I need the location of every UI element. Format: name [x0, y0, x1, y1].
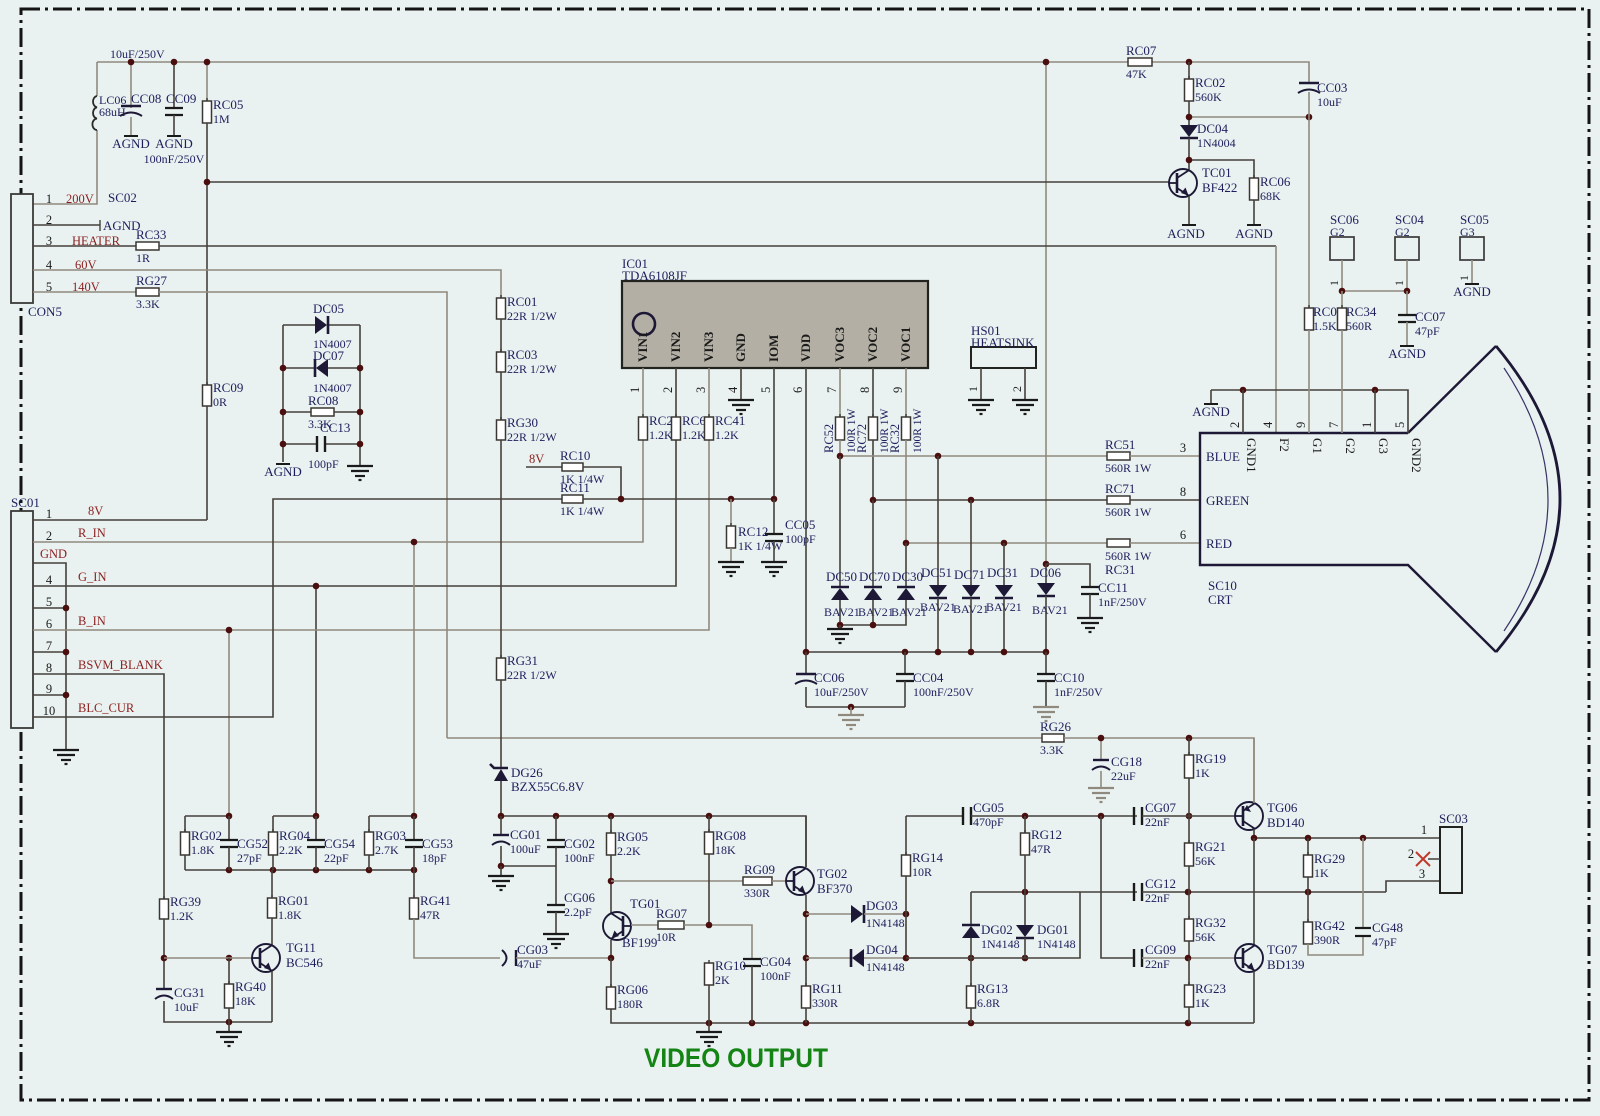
wire CG48 top — [1362, 838, 1364, 928]
svg-text:1.8K: 1.8K — [278, 908, 302, 922]
svg-text:CG31: CG31 — [174, 985, 205, 1000]
svg-text:DC31: DC31 — [987, 565, 1018, 580]
wire RG41 to CG03 — [414, 919, 500, 958]
svg-text:CG04: CG04 — [760, 954, 792, 969]
wire CC07 top — [1406, 291, 1408, 315]
svg-text:CG18: CG18 — [1111, 754, 1142, 769]
wire pair1 top rail — [185, 815, 229, 817]
svg-text:BD140: BD140 — [1267, 815, 1305, 830]
junction RC02 DC04 node — [1186, 114, 1313, 121]
capacitor CG07 — [1134, 800, 1177, 829]
svg-text:VIDEO OUTPUT: VIDEO OUTPUT — [644, 1043, 828, 1073]
net 60V — [75, 258, 97, 272]
diode DG01 — [1016, 922, 1076, 951]
resistor RG12 — [1021, 827, 1063, 856]
wire F2 drop — [1275, 246, 1277, 433]
svg-text:6.8R: 6.8R — [977, 996, 1000, 1010]
wire DG04 line — [806, 957, 851, 959]
wire CG52 bottom — [228, 847, 230, 870]
svg-text:1K 1/4W: 1K 1/4W — [560, 504, 605, 518]
wire DC31 top — [1003, 543, 1005, 585]
pin number 4 IC01 — [726, 386, 740, 393]
capacitor CG54 — [307, 836, 356, 865]
wire tie gnd stub — [850, 707, 852, 715]
wire CG53 bottom — [413, 847, 415, 870]
svg-text:CG01: CG01 — [510, 827, 541, 842]
svg-text:22uF: 22uF — [1111, 769, 1136, 783]
pin number 1 CRT — [1360, 422, 1374, 428]
wire RC11 node line — [583, 498, 774, 500]
wire DC05 cathode — [328, 324, 360, 326]
wire RG02 bottom — [184, 855, 186, 870]
svg-text:18K: 18K — [235, 994, 256, 1008]
svg-text:1: 1 — [1327, 280, 1341, 286]
resistor RC01 — [497, 294, 558, 323]
net BLC_CUR — [78, 701, 135, 715]
junction CC06 gnd — [848, 704, 855, 711]
svg-text:RC11: RC11 — [560, 480, 590, 495]
resistor RG30 — [497, 415, 558, 444]
svg-text:BC546: BC546 — [286, 955, 323, 970]
wire 140V rail to RG26 — [447, 737, 1042, 739]
svg-text:22nF: 22nF — [1145, 891, 1170, 905]
svg-text:RC01: RC01 — [507, 294, 537, 309]
pin 5 SC01 — [46, 595, 52, 609]
wire CG02 top — [555, 816, 557, 840]
svg-text:CC08: CC08 — [131, 91, 161, 106]
svg-text:5: 5 — [759, 387, 773, 393]
net BSVM_BLANK — [78, 658, 163, 672]
wire VOC2 below RC72 — [872, 440, 874, 500]
svg-text:CC06: CC06 — [814, 670, 845, 685]
wire RG05 to TG01 collector — [610, 855, 612, 913]
wire VOC1 below RC32 — [905, 440, 907, 543]
svg-text:3: 3 — [694, 387, 708, 393]
wire DG03 to RG14 — [864, 913, 906, 915]
pin 9 SC01 — [46, 682, 52, 696]
pin number 4 CRT — [1261, 421, 1275, 428]
wire RC02 to DC04 — [1188, 101, 1190, 125]
wire RED line — [906, 542, 1107, 544]
wire RG23 top — [1188, 958, 1190, 985]
ground AGND snubber — [264, 464, 302, 479]
pin 8 CRT — [1180, 485, 1186, 499]
svg-text:4: 4 — [46, 573, 53, 587]
diode DC51 — [920, 565, 956, 614]
svg-text:RC32: RC32 — [888, 424, 902, 453]
resistor RC11 — [560, 480, 605, 518]
wire CG01 CG02 tie — [501, 865, 556, 867]
wire DG02 top tie — [971, 891, 1080, 893]
svg-text:47R: 47R — [420, 908, 440, 922]
wire G1 drop to RC04 — [1308, 117, 1310, 308]
svg-text:CG06: CG06 — [564, 890, 596, 905]
transistor TG07 — [1235, 942, 1305, 972]
junction dots DG bottom line — [903, 955, 1029, 962]
svg-text:RG08: RG08 — [715, 828, 746, 843]
pin 1 HS01 — [966, 386, 980, 392]
svg-text:RC05: RC05 — [213, 97, 243, 112]
wire IC pin VIN3 — [708, 368, 710, 417]
pin number 8 IC01 — [858, 387, 872, 393]
svg-text:DC70: DC70 — [859, 569, 890, 584]
pin label VOC2 IC01 — [865, 327, 880, 362]
wire RC01 RC03 — [500, 319, 502, 352]
svg-text:330R: 330R — [744, 886, 770, 900]
wire RG08 top — [708, 816, 710, 832]
wire 200V top rail — [97, 61, 1128, 63]
junction dots RGB inputs — [226, 539, 418, 634]
svg-text:1: 1 — [1457, 275, 1471, 281]
resistor RC31 — [1105, 539, 1152, 577]
svg-text:CG07: CG07 — [1145, 800, 1177, 815]
svg-text:1.8K: 1.8K — [191, 843, 215, 857]
svg-text:CG02: CG02 — [564, 836, 595, 851]
junction dots CG05 line — [1022, 813, 1193, 820]
svg-text:AGND: AGND — [1192, 404, 1230, 419]
svg-text:3: 3 — [46, 234, 52, 248]
svg-text:2: 2 — [46, 529, 52, 543]
svg-text:DC50: DC50 — [826, 569, 857, 584]
svg-text:BLC_CUR: BLC_CUR — [78, 701, 135, 715]
wire DC30 top — [905, 543, 907, 587]
wire CG07 to TG06 base — [1142, 815, 1236, 817]
transistor TG11 — [252, 940, 323, 972]
svg-text:4: 4 — [1261, 421, 1275, 428]
svg-text:560K: 560K — [1195, 90, 1222, 104]
wire RG40 bottom — [228, 1008, 230, 1022]
svg-text:1N4148: 1N4148 — [866, 916, 905, 930]
wire G2 tie — [1342, 290, 1407, 292]
capacitor CG18 — [1092, 754, 1142, 783]
svg-text:9: 9 — [891, 387, 905, 393]
wire B_IN drop to CG52 — [228, 630, 230, 816]
resistor RC72 — [855, 408, 891, 453]
wire R_IN to RC21 — [33, 440, 643, 542]
wire gnd stub TG11 — [228, 1022, 230, 1032]
wire output to SC03 pin1 — [1254, 837, 1440, 839]
svg-text:22R 1/2W: 22R 1/2W — [507, 362, 557, 376]
svg-text:SC03: SC03 — [1439, 811, 1468, 826]
junction dots bottom rail — [706, 1020, 1192, 1027]
title VIDEO OUTPUT — [644, 1043, 828, 1073]
svg-text:8V: 8V — [88, 504, 103, 518]
svg-text:AGND: AGND — [155, 136, 193, 151]
wire CC10 bottom — [1045, 681, 1047, 707]
ref SC02 — [108, 190, 137, 205]
pin 8 SC01 — [46, 661, 52, 675]
svg-text:RC09: RC09 — [213, 380, 243, 395]
no-connect pin 2 SC03 — [1408, 847, 1440, 866]
capacitor CC10 — [1037, 670, 1103, 699]
wire amp rail to TG02 collector — [501, 816, 806, 867]
svg-text:7: 7 — [825, 387, 839, 393]
pin 2 SC01 — [46, 529, 52, 543]
wire IC pin VOC3 — [839, 368, 841, 417]
wire RC03 RG30 — [500, 372, 502, 420]
junction dots pair tops — [226, 813, 418, 820]
svg-text:CC04: CC04 — [913, 670, 944, 685]
pin 1 SC03 — [1421, 823, 1427, 837]
svg-text:1K: 1K — [1195, 766, 1210, 780]
junction dots RC11 line — [618, 496, 778, 503]
wire TG02 emitter node — [805, 914, 807, 986]
svg-text:1.5K: 1.5K — [1313, 319, 1337, 333]
svg-text:3: 3 — [1180, 441, 1186, 455]
resistor RC12 — [727, 523, 784, 553]
svg-text:1: 1 — [1360, 422, 1374, 428]
wire DG04 to RG14 — [864, 957, 906, 959]
diode DG03 — [851, 898, 905, 930]
svg-text:SC02: SC02 — [108, 190, 137, 205]
wire CG05 to CG07 — [971, 815, 1137, 817]
net 200V — [66, 192, 94, 206]
pin 5 CON5 — [46, 280, 52, 294]
svg-text:47pF: 47pF — [1415, 324, 1440, 338]
pin label VIN3 IC01 — [701, 331, 716, 362]
wire CG52 top — [228, 816, 230, 840]
wire bottom gnd rail — [611, 1009, 1254, 1023]
svg-text:TG11: TG11 — [286, 940, 316, 955]
diode DC70 — [858, 569, 894, 619]
wire RG42 top — [1307, 892, 1309, 922]
svg-text:100pF: 100pF — [785, 532, 816, 546]
pin label VIN1 IC01 — [635, 332, 650, 362]
wire RG07 to CG04 — [684, 925, 752, 959]
svg-text:CG12: CG12 — [1145, 876, 1176, 891]
ground — [696, 1032, 722, 1046]
wire G2 to CRT — [1341, 330, 1343, 433]
wire TG07 emitter — [1253, 971, 1255, 1023]
svg-text:BF422: BF422 — [1202, 180, 1237, 195]
resistor RG09 — [743, 862, 775, 900]
svg-text:18K: 18K — [715, 843, 736, 857]
wire RED to CRT — [1130, 542, 1200, 544]
wire DG26 to rail — [500, 781, 502, 816]
svg-text:BSVM_BLANK: BSVM_BLANK — [78, 658, 163, 672]
wire RG31 to DG26 — [500, 680, 502, 768]
wire G1 to CRT — [1308, 330, 1310, 433]
capacitor CG53 — [405, 836, 453, 865]
svg-text:CC05: CC05 — [785, 517, 815, 532]
svg-text:G2: G2 — [1343, 438, 1358, 454]
wire RG19 bottom — [1188, 778, 1190, 816]
svg-text:CG52: CG52 — [237, 836, 268, 851]
ground — [968, 400, 994, 414]
svg-text:22R 1/2W: 22R 1/2W — [507, 668, 557, 682]
svg-text:TC01: TC01 — [1202, 165, 1232, 180]
svg-text:G1: G1 — [1310, 438, 1325, 454]
svg-text:RC34: RC34 — [1346, 304, 1377, 319]
wire IC pin VIN1 — [642, 368, 644, 417]
svg-text:47K: 47K — [1126, 67, 1147, 81]
capacitor CC11 — [1081, 580, 1147, 609]
heatsink HS01 — [971, 323, 1036, 368]
wire CG03 to TG01 emitter — [516, 957, 611, 959]
ground — [347, 466, 373, 480]
wire DC04 to TC01 collector — [1188, 138, 1190, 171]
junction RG40 bottom — [226, 1019, 233, 1026]
wire G_IN to RC61 — [33, 440, 676, 586]
svg-text:VIN1: VIN1 — [635, 332, 650, 362]
svg-text:22R 1/2W: 22R 1/2W — [507, 309, 557, 323]
svg-text:SC10: SC10 — [1208, 578, 1237, 593]
wire node to CC03 G1 — [1189, 116, 1309, 118]
resistor RG11 — [802, 981, 843, 1010]
wire TG02 collector — [805, 816, 807, 867]
wire DG02 top — [970, 892, 972, 925]
wire CG09 to TG07 base — [1142, 957, 1236, 959]
wire DC70 top — [872, 500, 874, 587]
pin 3 SC03 — [1419, 867, 1425, 881]
wire AGND stub CRT — [1210, 390, 1212, 404]
wire 140V left — [33, 291, 136, 293]
junction RG05 RG09 — [608, 878, 615, 885]
transistor TG01 — [603, 896, 660, 940]
resistor RC09 — [203, 380, 244, 409]
wire RG09 line left — [611, 880, 743, 882]
svg-text:TG02: TG02 — [817, 866, 847, 881]
svg-text:3.3K: 3.3K — [1040, 743, 1064, 757]
pin label VOC1 IC01 — [898, 327, 913, 362]
svg-text:RG13: RG13 — [977, 981, 1008, 996]
svg-text:10uF: 10uF — [174, 1000, 199, 1014]
pin 4 CON5 — [46, 258, 53, 272]
ground — [718, 562, 744, 576]
svg-text:DC06: DC06 — [1030, 565, 1062, 580]
svg-text:47R: 47R — [1031, 842, 1051, 856]
svg-text:RC72: RC72 — [855, 424, 869, 453]
wire snubber left vertical — [282, 325, 284, 462]
svg-text:DC04: DC04 — [1197, 121, 1229, 136]
svg-text:DG26: DG26 — [511, 765, 543, 780]
svg-text:7: 7 — [46, 639, 52, 653]
svg-text:G2: G2 — [1395, 225, 1410, 239]
wire DC50 bottom — [839, 600, 841, 625]
wire TG11 emitter — [271, 971, 273, 1022]
resistor RG08 — [705, 828, 747, 857]
transistor TC01 — [1169, 165, 1237, 197]
ground — [543, 934, 569, 948]
svg-text:IOM: IOM — [766, 335, 781, 362]
svg-text:8: 8 — [46, 661, 52, 675]
svg-text:TDA6108JF: TDA6108JF — [622, 268, 687, 283]
resistor RG40 — [225, 979, 267, 1008]
wire TG11 base line — [164, 957, 252, 959]
pin 6 SC01 — [46, 617, 52, 631]
IC U1 IC01 TDA6108JF — [622, 256, 928, 368]
junction dots top rail — [128, 59, 1193, 186]
wire RG13 bottom — [970, 1008, 972, 1023]
svg-text:DG01: DG01 — [1037, 922, 1069, 937]
svg-text:CG48: CG48 — [1372, 920, 1403, 935]
svg-text:2.2K: 2.2K — [617, 844, 641, 858]
svg-text:56K: 56K — [1195, 930, 1216, 944]
capacitor CC13 — [308, 420, 350, 471]
wire RC12 top — [730, 499, 732, 526]
capacitor CG02 — [547, 836, 595, 865]
svg-text:RC03: RC03 — [507, 347, 537, 362]
svg-text:1K: 1K — [1195, 996, 1210, 1010]
ground — [1088, 788, 1114, 802]
ground — [838, 715, 864, 729]
ground — [827, 629, 853, 643]
svg-text:1.2K: 1.2K — [715, 428, 739, 442]
svg-text:6: 6 — [791, 387, 805, 393]
resistor RG32 — [1185, 915, 1227, 944]
wire RG11 bottom — [805, 1008, 807, 1023]
wire VDD pin6 — [805, 368, 807, 652]
resistor RG10 — [705, 958, 747, 987]
wire CC05 gnd — [773, 541, 775, 562]
svg-text:AGND: AGND — [1453, 284, 1491, 299]
junction dots SC01 gnd — [63, 605, 70, 699]
resistor RG14 — [902, 850, 944, 879]
pin number 2 CRT — [1228, 422, 1242, 428]
no-connect tick pin2 — [99, 220, 101, 231]
resistor RG42 — [1304, 918, 1346, 947]
svg-text:RC33: RC33 — [136, 227, 166, 242]
wire CRT AGND rail — [1211, 390, 1408, 433]
svg-text:100nF: 100nF — [760, 969, 791, 983]
wire RG39 to CG31 node — [163, 919, 165, 989]
svg-text:RC02: RC02 — [1195, 75, 1225, 90]
pin label VIN2 IC01 — [668, 332, 683, 362]
junction dots CG12 line — [1185, 889, 1312, 896]
wire DG bottom to CG12 — [906, 892, 1137, 958]
svg-text:390R: 390R — [1314, 933, 1340, 947]
wire CC06 top — [805, 652, 807, 674]
wire CC08 to AGND — [130, 117, 132, 136]
wire B_IN to RC41 — [33, 440, 709, 630]
wire CC09 top — [173, 62, 175, 108]
svg-text:RC06: RC06 — [1260, 174, 1291, 189]
svg-text:GND: GND — [733, 333, 748, 362]
svg-text:RC51: RC51 — [1105, 437, 1135, 452]
svg-text:R_IN: R_IN — [78, 526, 106, 540]
wire RC05 top — [206, 62, 208, 101]
svg-text:1N4148: 1N4148 — [1037, 937, 1076, 951]
wire pair2 top rail — [273, 815, 316, 817]
wire pair3 top rail — [369, 815, 414, 817]
wire DC06 bottom — [1045, 596, 1047, 652]
junction TG01 emitter — [608, 955, 615, 962]
wire GREEN line — [873, 499, 1107, 501]
wire RG03 bottom — [368, 855, 370, 870]
wire TG06 emitter up — [1253, 738, 1255, 803]
svg-text:CRT: CRT — [1208, 592, 1233, 607]
svg-text:22R 1/2W: 22R 1/2W — [507, 430, 557, 444]
wire TG02 emitter — [805, 895, 807, 914]
pin number 5 CRT — [1393, 422, 1407, 428]
svg-text:RG29: RG29 — [1314, 851, 1345, 866]
svg-text:F2: F2 — [1277, 438, 1292, 452]
svg-text:RC12: RC12 — [738, 524, 768, 539]
svg-text:AGND: AGND — [264, 464, 302, 479]
pin number 3 IC01 — [694, 387, 708, 393]
svg-text:RG39: RG39 — [170, 894, 201, 909]
svg-text:4: 4 — [726, 386, 740, 393]
wire CG06 gnd — [555, 912, 557, 934]
svg-text:100R 1W: 100R 1W — [912, 408, 924, 453]
svg-text:CC11: CC11 — [1098, 580, 1128, 595]
svg-text:560R 1W: 560R 1W — [1105, 461, 1152, 475]
wire RG21 bottom — [1188, 866, 1190, 892]
svg-text:9: 9 — [46, 682, 52, 696]
svg-text:VIN2: VIN2 — [668, 332, 683, 362]
wire BLC_CUR to RC11 — [33, 499, 562, 717]
svg-text:100nF/250V: 100nF/250V — [913, 685, 974, 699]
